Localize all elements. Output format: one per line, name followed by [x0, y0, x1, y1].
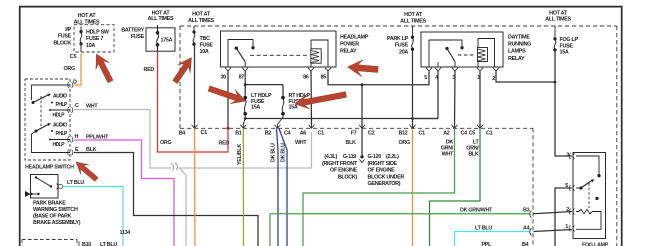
svg-text:RED: RED [219, 141, 230, 147]
svg-text:B2: B2 [265, 131, 272, 137]
DRL relay switch (pins 5/3) [429, 40, 463, 67]
svg-text:OF ENGINE: OF ENGINE [368, 168, 396, 174]
svg-text:ALL TIMES: ALL TIMES [74, 19, 100, 25]
battery fuse box [146, 28, 175, 51]
park brake switch contacts [35, 176, 37, 178]
wires: DK BLU pair below connector B2/C4 [277, 129, 279, 246]
svg-text:HOT AT: HOT AT [192, 12, 211, 18]
wire: DK GRN/WHT below connector A2 [303, 129, 455, 246]
svg-text:HEADLAMP: HEADLAMP [340, 35, 369, 41]
svg-text:HDLP: HDLP [53, 142, 66, 148]
wire: LT GRN/BLK below connector C5 [430, 129, 481, 246]
pin letters D C H E [73, 80, 79, 154]
wire: DK GRN/WHT fog feed to connector B3 [270, 214, 531, 246]
svg-text:AUDIO: AUDIO [53, 123, 67, 129]
annotation arrow at HDLP SW fuse [96, 54, 113, 83]
svg-text:2: 2 [566, 207, 569, 213]
svg-text:BATTERY: BATTERY [121, 28, 144, 34]
headlamp switch section 1 (to pin D common) [32, 85, 71, 104]
relay: daytime running lamps relay box [421, 32, 503, 67]
wire: LT BLU from park brake switch [63, 187, 123, 246]
svg-text:(RIGHT FRONT: (RIGHT FRONT [322, 161, 358, 167]
headlamp relay switch (pins 30/87) [228, 40, 254, 68]
wire: ORG below connector B12 [412, 129, 414, 246]
annotation arrow at RT HDLP fuse [295, 92, 347, 109]
fog lamp relay box [573, 153, 606, 239]
svg-text:ALL TIMES: ALL TIMES [545, 16, 571, 22]
connector B1 (YEL/BLK) [240, 125, 246, 129]
mechanical link between switch wafers [40, 96, 42, 126]
svg-text:FUSE: FUSE [131, 34, 145, 40]
svg-text:FUSE: FUSE [200, 42, 214, 48]
label HOT AT ALL TIMES (fuse 7) [74, 13, 100, 25]
svg-text:(4.3L): (4.3L) [324, 154, 337, 160]
svg-text:RELAY: RELAY [508, 56, 525, 62]
svg-text:DK BLU: DK BLU [271, 143, 277, 162]
wire: DRL pin4 to park fuse feed [413, 71, 439, 119]
svg-text:30: 30 [221, 75, 227, 81]
wire: TBC fuse output down to connector B4 [194, 45, 196, 128]
svg-text:WHT: WHT [86, 104, 98, 110]
svg-text:RUNNING: RUNNING [508, 42, 531, 48]
inline connector arcs on WHT wire [171, 163, 177, 171]
wire: relay pin85 over to DRL relay pin5 and down to F7 [328, 71, 429, 85]
svg-text:A2: A2 [443, 131, 450, 137]
svg-text:WARNING SWITCH: WARNING SWITCH [33, 207, 78, 213]
wire: DRL pin3 down to connector A2 [454, 71, 457, 128]
svg-text:B4: B4 [522, 242, 529, 246]
label HOT AT ALL TIMES (fog fuse) [545, 11, 571, 23]
svg-text:C: C [75, 103, 79, 109]
svg-text:B1: B1 [235, 131, 242, 137]
svg-text:DK BLU: DK BLU [281, 143, 287, 162]
svg-text:FUSE: FUSE [58, 34, 72, 40]
svg-text:BRAKE ASSEMBLY): BRAKE ASSEMBLY) [33, 220, 81, 226]
wire: relay pin86 down to connector A6 [310, 71, 313, 128]
wire: ORG below connector B4 [194, 129, 197, 246]
svg-text:FUSE: FUSE [395, 43, 409, 49]
svg-text:ORG: ORG [160, 140, 171, 146]
svg-text:ORG: ORG [399, 140, 410, 146]
svg-text:C2: C2 [368, 131, 375, 137]
bus: fuse outputs tie line y118.5 [245, 118, 438, 120]
label HEADLAMP POWER RELAY [340, 35, 369, 55]
label HOT AT ALL TIMES (battery fuse) [148, 10, 174, 22]
svg-text:WHT: WHT [442, 152, 454, 158]
svg-text:B3: B3 [523, 208, 530, 214]
svg-text:C4: C4 [461, 131, 468, 137]
svg-text:10A: 10A [200, 49, 209, 55]
wire: fog pin5 down (fog lamp switch) [555, 188, 572, 246]
DRL relay pin terminals 5 4 3 1 2 [426, 68, 499, 71]
label HOT AT ALL TIMES (park lp fuse) [400, 12, 426, 24]
svg-text:DK GRN/WHT: DK GRN/WHT [460, 208, 493, 214]
svg-text:C1: C1 [201, 130, 208, 136]
annotation arrow at headlamp switch [76, 162, 98, 181]
svg-text:GENERATOR): GENERATOR) [368, 181, 401, 187]
headlamp relay coil (pins 86/85) [311, 40, 328, 67]
partial dashed connector box bottom left [22, 240, 77, 246]
ground location text [322, 154, 358, 180]
svg-text:A6: A6 [300, 131, 307, 137]
svg-text:C4: C4 [284, 131, 291, 137]
svg-text:ORG: ORG [64, 66, 75, 72]
connector B2/C4 (DK BLU pair) [275, 125, 281, 129]
svg-text:15A: 15A [251, 105, 260, 111]
splice: RED feed to pin30 [226, 127, 229, 130]
DRL relay coil (pins 1/2) [478, 39, 495, 68]
fuse: PARK LP FUSE 20A [387, 36, 409, 55]
svg-text:ALL TIMES: ALL TIMES [148, 16, 174, 22]
fog lamp element (resistor) pins 2/1 [576, 209, 601, 229]
connector A6/C1 (WHT) [309, 125, 315, 129]
connector F7/C2 (BLK) [359, 125, 365, 129]
wire: PPL/WHT from switch pin H [74, 140, 174, 246]
fuse: LT HDLP FUSE 15A [243, 96, 246, 128]
fuse: battery fuse 175A [156, 25, 159, 51]
ground G-119/G-120 [360, 155, 363, 158]
svg-text:1: 1 [565, 224, 568, 230]
headlamp relay pin terminals 30 87 86 85 [225, 68, 331, 71]
svg-text:C1: C1 [318, 131, 325, 137]
svg-text:C5: C5 [469, 131, 476, 137]
svg-text:BLK: BLK [346, 140, 357, 146]
wire: WHT from switch pin C [74, 110, 312, 246]
I/P fuse block dashed box (HDLP SW fuse) [74, 25, 114, 52]
svg-text:20A: 20A [399, 49, 408, 55]
svg-text:B4: B4 [179, 131, 186, 137]
park brake warning switch box [31, 175, 59, 199]
svg-text:YEL/BLK: YEL/BLK [237, 144, 243, 165]
svg-text:DAYTIME: DAYTIME [508, 35, 530, 41]
svg-text:WHT: WHT [295, 140, 307, 146]
fog relay pin connectors 3 5 2 1 [569, 153, 574, 232]
headlamp switch dashed box [25, 79, 70, 160]
svg-text:LT BLU: LT BLU [67, 180, 84, 186]
svg-text:(RIGHT SIDE: (RIGHT SIDE [368, 161, 398, 167]
svg-text:ALL TIMES: ALL TIMES [400, 18, 426, 24]
svg-text:AUDIO: AUDIO [53, 94, 67, 100]
annotation arrow at TBC fuse [173, 58, 192, 84]
DRL relay mechanical link [458, 54, 475, 56]
label BATTERY FUSE [121, 28, 144, 41]
svg-text:HOT AT: HOT AT [404, 12, 423, 18]
svg-text:A4: A4 [523, 226, 530, 232]
relay: headlamp power relay box [221, 31, 337, 67]
svg-text:3: 3 [566, 153, 569, 159]
fuse: RT HDLP FUSE 15A [278, 96, 285, 128]
svg-text:1134: 1134 [120, 230, 131, 236]
svg-text:PHLP: PHLP [56, 131, 69, 137]
fog relay mechanical link [588, 183, 590, 208]
svg-text:86: 86 [303, 75, 309, 81]
splice dot at pin87 feed [244, 83, 247, 86]
wire: ORG fuse7 to switch pin D [74, 54, 81, 86]
wire: relay pin30 down to splice with RED feed [227, 71, 229, 128]
svg-text:PPL/WHT: PPL/WHT [86, 135, 109, 141]
case arrow on park brake switch [25, 191, 31, 197]
svg-text:FUSE 7: FUSE 7 [86, 36, 103, 42]
svg-text:(2.2L): (2.2L) [386, 154, 399, 160]
svg-text:C5: C5 [70, 54, 77, 60]
annotation arrow at LT HDLP fuse [208, 86, 245, 104]
park brake switch pin connector [57, 184, 63, 190]
svg-text:85: 85 [321, 75, 327, 81]
fuse: FOG LP FUSE 15A [554, 26, 556, 51]
connector B12/C1 (ORG park lamps) [410, 125, 416, 129]
svg-text:PHLP: PHLP [56, 102, 69, 108]
svg-text:BLK: BLK [86, 147, 97, 153]
svg-text:(BASE OF PARK: (BASE OF PARK [33, 214, 72, 220]
svg-text:HDLP SW: HDLP SW [86, 30, 110, 36]
svg-text:HOT AT: HOT AT [78, 13, 97, 19]
svg-text:H: H [75, 134, 79, 140]
wire: park lp fuse output down to connector B12 [412, 50, 414, 128]
label DAYTIME RUNNING LAMPS RELAY [508, 35, 531, 63]
svg-text:BLOCK): BLOCK) [338, 174, 358, 180]
svg-text:B10: B10 [82, 242, 91, 246]
svg-text:FUSE: FUSE [560, 43, 574, 49]
svg-text:POWER: POWER [340, 42, 359, 48]
connector B4/C1 (ORG from TBC fuse) [192, 125, 198, 129]
svg-text:PARK LP: PARK LP [387, 36, 409, 42]
wire: relay pin87 to headlamp fuses feed [245, 71, 283, 96]
wire: BLK from switch pin E [74, 153, 258, 246]
svg-text:F7: F7 [351, 131, 357, 137]
headlamp switch section 2 (to pin E common) [32, 123, 71, 153]
svg-text:FOG LP: FOG LP [560, 37, 579, 43]
svg-text:15A: 15A [560, 50, 569, 56]
svg-text:G-119: G-119 [343, 154, 356, 160]
wire: BLK below F7 to ground [361, 129, 363, 156]
wire: RED battery feed [158, 52, 229, 153]
label I/P FUSE BLOCK [53, 27, 71, 46]
labels PPL / B4 (cropped row) [482, 242, 529, 246]
svg-text:OF ENGINE: OF ENGINE [330, 168, 358, 174]
connector C5/C1 (LT GRN/BLK) [477, 125, 483, 129]
underhood fuse block dashed boundary [180, 26, 617, 246]
svg-text:HEADLAMP SWITCH: HEADLAMP SWITCH [25, 165, 74, 171]
label HOT AT ALL TIMES (TBC fuse) [188, 12, 214, 24]
svg-text:2: 2 [492, 76, 495, 82]
svg-text:BLK: BLK [468, 152, 479, 158]
svg-text:175A: 175A [161, 38, 173, 44]
svg-text:5: 5 [424, 75, 427, 81]
svg-text:PPL: PPL [482, 242, 493, 246]
svg-text:PARK BRAKE: PARK BRAKE [33, 201, 66, 207]
svg-text:BLOCK: BLOCK [53, 40, 71, 46]
svg-text:10A: 10A [86, 43, 95, 49]
wire: DRL pin2 over to fog fuse output [496, 71, 555, 82]
svg-text:HDLP: HDLP [53, 113, 66, 119]
wire: YEL/BLK below connector B1 [242, 129, 244, 246]
svg-text:RELAY: RELAY [340, 49, 357, 55]
annotation arrow at headlamp power relay [348, 60, 379, 77]
fuse: HDLP SW FUSE 7 10A [80, 27, 82, 53]
label PARK BRAKE WARNING SWITCH [33, 201, 81, 227]
svg-text:I/P: I/P [65, 27, 71, 33]
svg-text:LT BLU: LT BLU [475, 226, 492, 232]
wire: fog fuse output down to fog lamp relay pin3 [555, 51, 572, 156]
wire: LT BLU fog switch feed to connector A4 [455, 232, 531, 246]
svg-text:RED: RED [144, 67, 155, 73]
switch contacts PHLP/HDLP dots (section 1) [51, 102, 53, 104]
svg-text:ALL TIMES: ALL TIMES [188, 18, 214, 24]
svg-text:G-120: G-120 [368, 154, 382, 160]
svg-text:LT BLU: LT BLU [100, 242, 117, 246]
svg-text:LAMPS: LAMPS [508, 49, 526, 55]
fog relay internal switch [576, 156, 600, 200]
connector A2/C4 (DK GRN/WHT) [452, 125, 458, 129]
svg-text:FOG LAMP: FOG LAMP [582, 243, 609, 246]
svg-text:87: 87 [239, 75, 245, 81]
svg-text:B12: B12 [399, 131, 408, 137]
svg-text:C1: C1 [419, 131, 426, 137]
svg-text:15A: 15A [289, 105, 298, 111]
headlamp relay mechanical link (dashed) [250, 54, 308, 56]
wire: DRL pin1 down to connector C5 [479, 71, 481, 128]
svg-text:BLOCK UNDER: BLOCK UNDER [368, 174, 405, 180]
fuse: TBC FUSE 10A [193, 26, 195, 45]
svg-text:TBC: TBC [200, 36, 211, 42]
pin B10 and LT BLU label [78, 242, 80, 246]
svg-text:C1: C1 [486, 131, 493, 137]
pin connector notches [68, 82, 73, 156]
